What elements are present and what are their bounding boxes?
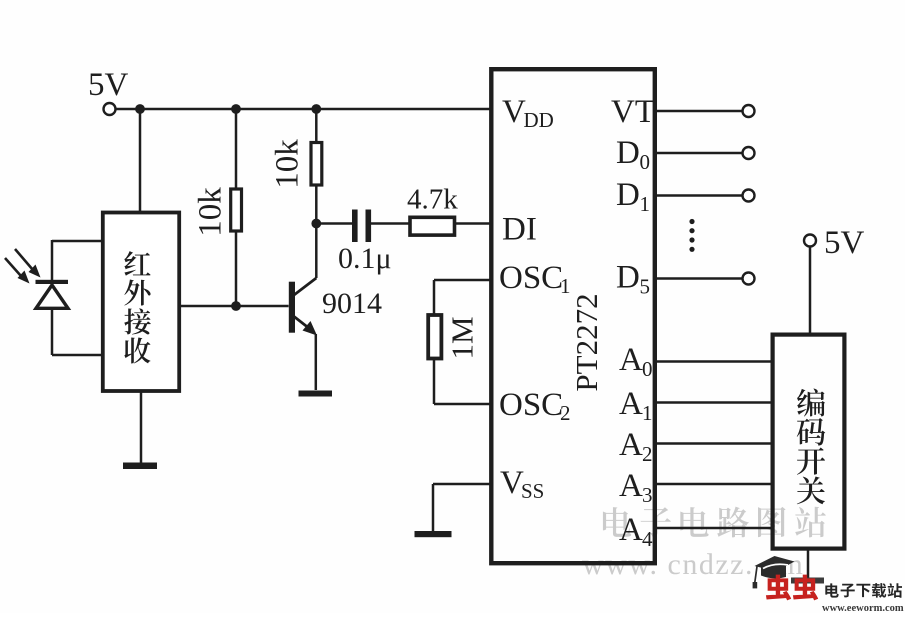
svg-text:A: A <box>619 468 643 504</box>
svg-text:0: 0 <box>640 150 651 174</box>
svg-text:0.1μ: 0.1μ <box>338 242 392 275</box>
wire: D0 output <box>655 152 743 155</box>
svg-text:3: 3 <box>642 483 653 507</box>
svg-text:D: D <box>616 135 640 171</box>
junction node rail/R2 <box>311 104 321 114</box>
wire: VSS pin to ground <box>433 484 491 531</box>
svg-text:2: 2 <box>642 442 653 466</box>
wire: IR module bottom to ground <box>140 391 143 464</box>
wire: OSC1 pin to R4 top <box>434 280 491 315</box>
wire: A4 to switch <box>655 527 772 530</box>
watermark faint text 电子电路图站 <box>603 507 826 538</box>
wire: A1 to switch <box>655 401 772 404</box>
label PT2272 <box>569 293 604 391</box>
power terminal 5V right <box>804 235 816 247</box>
svg-text:V: V <box>502 94 526 130</box>
svg-text:9014: 9014 <box>322 287 382 320</box>
transistor Q1 emitter lead with arrow <box>294 317 317 336</box>
ground (emitter) <box>299 391 333 397</box>
transistor Q1 base bar <box>289 282 295 333</box>
terminal D5 <box>743 273 755 285</box>
pin label VSS <box>500 465 544 503</box>
junction node rail/IR-module <box>135 104 145 114</box>
svg-text:DD: DD <box>524 108 554 132</box>
wire: R4 bottom to OSC2 pin <box>434 359 491 405</box>
svg-text:5: 5 <box>640 275 651 299</box>
terminal D1 <box>743 190 755 202</box>
wire: photodiode bottom to IR module <box>52 309 102 355</box>
svg-text:A: A <box>619 342 643 378</box>
resistor R2 10k <box>311 143 322 186</box>
wire: VT output <box>655 110 743 113</box>
svg-text:PT2272: PT2272 <box>569 293 604 391</box>
wire: D1 output <box>655 194 743 197</box>
label 0.1μ <box>338 242 392 275</box>
junction node base <box>231 301 241 311</box>
transistor Q1 collector lead <box>294 278 316 295</box>
svg-text:5V: 5V <box>88 67 129 103</box>
svg-text:VT: VT <box>611 94 655 130</box>
svg-text:SS: SS <box>521 479 544 503</box>
svg-text:5V: 5V <box>824 225 865 261</box>
svg-text:10k: 10k <box>193 187 229 237</box>
wire: collector node to C1 <box>316 222 352 225</box>
wire: 5V right down to switch box <box>809 246 812 335</box>
capacitor C1 right plate <box>366 210 372 243</box>
wire: switch bottom to ground <box>807 549 810 579</box>
svg-text:2: 2 <box>560 401 571 425</box>
wire: A3 to switch <box>655 483 772 486</box>
resistor R3 4.7k <box>410 217 455 235</box>
svg-text:D: D <box>616 260 640 296</box>
IR receiver module box <box>103 213 179 392</box>
ground (IR module) <box>123 463 157 470</box>
watermark label 电子下载站 <box>825 583 902 598</box>
power terminal 5V left <box>104 103 116 115</box>
label 1M <box>445 316 480 359</box>
watermark logo 虫虫 <box>766 575 818 601</box>
label 10k (R1) <box>193 187 229 237</box>
pin label D0 <box>616 135 650 174</box>
code switch box <box>773 335 845 549</box>
svg-text:10k: 10k <box>270 139 306 189</box>
wire: rail to R2 <box>315 109 318 143</box>
label 编码开关 <box>797 389 826 505</box>
svg-text:0: 0 <box>642 357 653 381</box>
label 9014 <box>322 287 382 320</box>
resistor R4 1M <box>428 315 441 359</box>
svg-text:1: 1 <box>642 401 653 425</box>
IC U1 PT2272 body <box>491 69 655 563</box>
wire: R3 to DI pin <box>455 222 492 225</box>
wire: rail down to IR module <box>139 109 142 212</box>
watermark url www.eeworm.com <box>822 603 904 614</box>
light arrow 1 <box>15 249 41 278</box>
label 5V (right supply) <box>824 225 865 261</box>
watermark faint url <box>582 548 804 581</box>
wire: emitter down to ground <box>315 334 318 390</box>
ground (switch) <box>791 578 824 584</box>
pin label A2 <box>619 427 653 466</box>
svg-text:OSC: OSC <box>499 387 563 423</box>
light arrow 2 <box>5 258 30 284</box>
svg-text:1M: 1M <box>445 316 480 359</box>
label 10k (R2) <box>270 139 306 189</box>
watermark graduation cap logo <box>753 556 795 588</box>
pin label VT <box>611 94 655 130</box>
svg-text:A: A <box>619 386 643 422</box>
pin label OSC2 <box>499 387 571 425</box>
svg-text:D: D <box>616 177 640 213</box>
wire: node down to Q1 collector <box>315 224 318 279</box>
wire: R1 to base node <box>235 231 238 306</box>
wire: rail to R1 <box>235 109 238 189</box>
wire: D5 output <box>655 277 743 280</box>
ground (VSS) <box>415 531 452 537</box>
wire: IR module to photodiode top <box>52 240 102 281</box>
svg-text:DI: DI <box>502 212 537 248</box>
svg-text:4: 4 <box>642 527 653 551</box>
pin label A0 <box>619 342 653 381</box>
terminal D0 <box>743 147 755 159</box>
svg-text:OSC: OSC <box>499 260 563 296</box>
resistor R1 10k <box>231 189 242 231</box>
svg-text:www.eeworm.com: www.eeworm.com <box>822 603 904 613</box>
wire: C1 to R3 <box>371 222 410 225</box>
wire: A0 to switch <box>655 360 772 363</box>
svg-text:1: 1 <box>640 192 651 216</box>
junction node rail/R1 <box>231 104 241 114</box>
pin label A3 <box>619 468 653 507</box>
svg-text:A: A <box>619 427 643 463</box>
wire: R2 to collector node <box>315 185 318 224</box>
pin label VDD <box>502 94 554 132</box>
label 5V (left supply) <box>88 67 129 103</box>
pin label A4 <box>619 512 653 551</box>
ellipsis D2-D4 <box>689 219 694 252</box>
label 红外接收 <box>124 251 151 363</box>
photodiode D1 cathode bar <box>36 280 69 284</box>
pin label D5 <box>616 260 650 299</box>
junction node collector/C1 <box>311 219 321 229</box>
terminal VT <box>743 105 755 117</box>
pin label OSC1 <box>499 260 571 298</box>
wire: A2 to switch <box>655 442 772 445</box>
capacitor C1 left plate <box>352 210 358 243</box>
wire: +5V top rail to VDD <box>115 108 491 111</box>
svg-text:4.7k: 4.7k <box>407 184 458 216</box>
label 4.7k <box>407 184 458 216</box>
svg-text:1: 1 <box>560 274 571 298</box>
pin label A1 <box>619 386 653 425</box>
pin label DI <box>502 212 537 248</box>
wire: IR module output to Q1 base <box>180 305 289 308</box>
photodiode D1 triangle <box>36 285 68 308</box>
pin label D1 <box>616 177 650 216</box>
svg-text:A: A <box>619 512 643 548</box>
